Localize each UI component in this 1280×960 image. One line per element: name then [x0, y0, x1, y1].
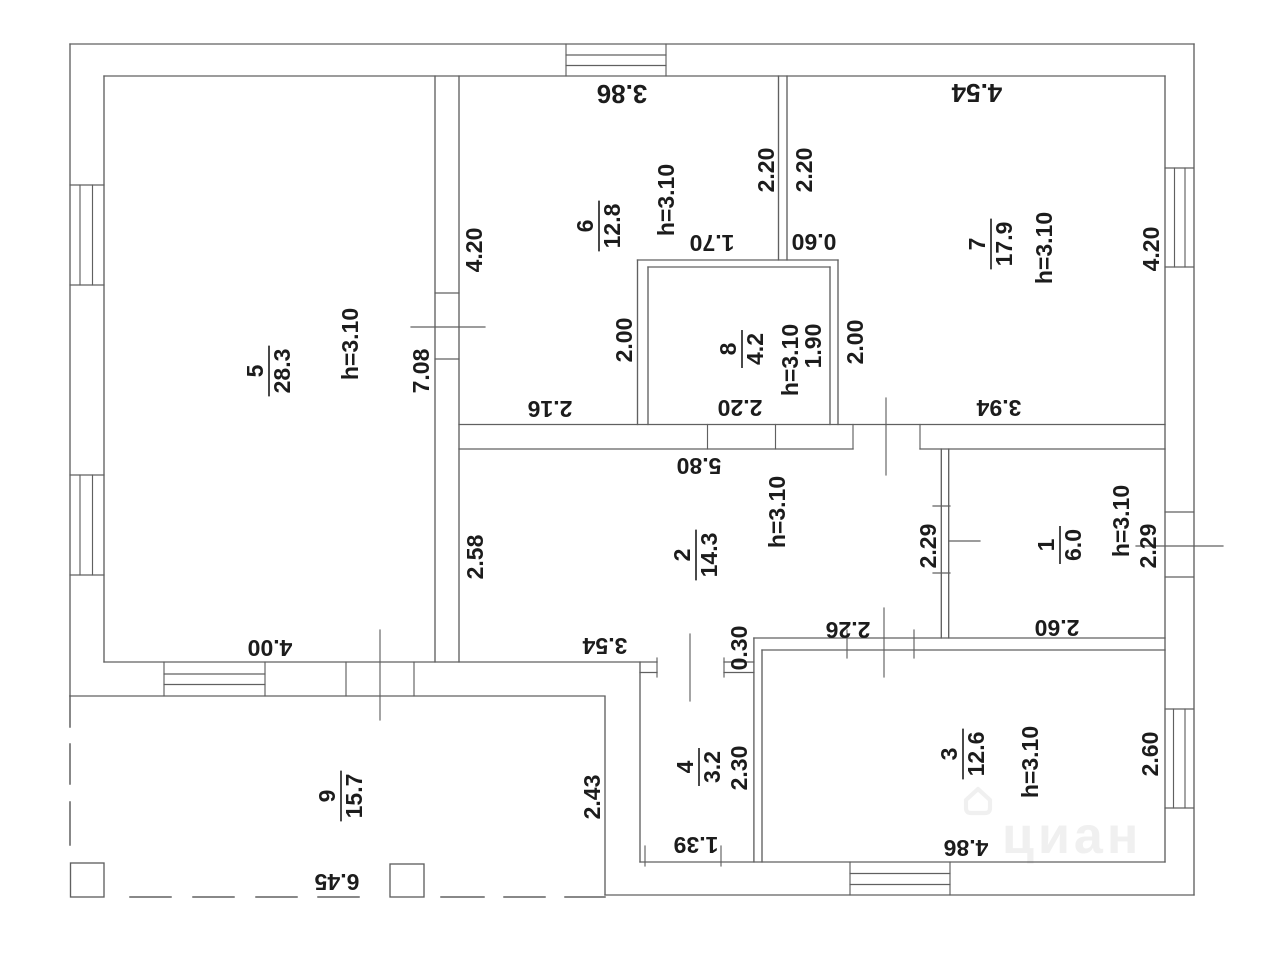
svg-text:h=3.10: h=3.10	[777, 324, 803, 396]
svg-text:4.20: 4.20	[461, 228, 487, 273]
svg-text:17.9: 17.9	[991, 222, 1017, 267]
svg-text:2.16: 2.16	[528, 396, 573, 422]
room 3 area 12.6	[936, 729, 989, 780]
room 2 area 14.3	[669, 530, 722, 581]
veranda right wall	[604, 697, 606, 895]
room 9 area 15.7	[314, 771, 367, 822]
svg-text:2.00: 2.00	[611, 318, 637, 363]
svg-text:15.7: 15.7	[341, 774, 367, 819]
room 6 area 12.8	[572, 201, 625, 252]
room 1 area 6.0	[1033, 526, 1086, 564]
svg-text:0.30: 0.30	[726, 626, 752, 671]
svg-text:h=3.10: h=3.10	[653, 164, 679, 236]
svg-text:1.90: 1.90	[800, 324, 826, 369]
svg-text:6.0: 6.0	[1060, 529, 1086, 561]
veranda pillars	[71, 863, 105, 897]
outer wall bottom-left	[70, 695, 605, 697]
svg-text:4.2: 4.2	[742, 333, 768, 365]
svg-text:28.3: 28.3	[269, 349, 295, 394]
svg-text:7: 7	[964, 238, 990, 251]
svg-text:2.29: 2.29	[915, 524, 941, 569]
watermark house icon	[966, 789, 990, 813]
svg-text:h=3.10: h=3.10	[1017, 726, 1043, 798]
svg-text:4.54: 4.54	[951, 78, 1002, 108]
svg-text:h=3.10: h=3.10	[1031, 212, 1057, 284]
svg-text:2.60: 2.60	[1137, 732, 1163, 777]
inner wall bottom-left	[104, 661, 657, 663]
svg-text:6.45: 6.45	[314, 869, 359, 895]
svg-text:2.30: 2.30	[726, 746, 752, 791]
svg-text:1: 1	[1033, 538, 1059, 551]
svg-text:h=3.10: h=3.10	[337, 308, 363, 380]
svg-text:2.29: 2.29	[1135, 524, 1161, 569]
inner wall left	[103, 76, 105, 662]
svg-text:5: 5	[242, 364, 268, 377]
svg-text:6: 6	[572, 220, 598, 233]
inner wall top	[104, 75, 1165, 77]
svg-text:9: 9	[314, 790, 340, 803]
outer wall right	[1193, 44, 1195, 895]
outer wall bottom extension	[605, 894, 1194, 896]
svg-text:3.86: 3.86	[597, 79, 648, 109]
svg-text:4.86: 4.86	[944, 835, 989, 861]
outer wall top	[70, 43, 1194, 45]
room 8 area 4.2	[715, 330, 768, 368]
svg-text:циан: циан	[1002, 807, 1142, 865]
svg-text:2.60: 2.60	[1035, 615, 1080, 641]
svg-text:0.60: 0.60	[792, 229, 837, 255]
svg-text:3.2: 3.2	[699, 751, 725, 783]
svg-text:12.8: 12.8	[599, 203, 625, 248]
svg-text:4: 4	[672, 760, 698, 773]
svg-text:2.20: 2.20	[791, 148, 817, 193]
inner wall bottom extension	[640, 861, 1165, 863]
svg-text:h=3.10: h=3.10	[1108, 485, 1134, 557]
svg-text:2.20: 2.20	[753, 148, 779, 193]
svg-text:2.26: 2.26	[826, 617, 871, 643]
svg-text:h=3.10: h=3.10	[764, 476, 790, 548]
room 5 area 28.3	[242, 346, 295, 397]
svg-text:1.39: 1.39	[674, 832, 719, 858]
svg-text:4.00: 4.00	[248, 635, 293, 661]
svg-text:14.3: 14.3	[696, 533, 722, 578]
svg-text:4.20: 4.20	[1138, 227, 1164, 272]
svg-text:2.00: 2.00	[842, 320, 868, 365]
room 7 area 17.9	[964, 219, 1017, 270]
svg-text:3: 3	[936, 748, 962, 761]
svg-text:7.08: 7.08	[408, 348, 434, 393]
svg-text:1.70: 1.70	[690, 230, 735, 256]
svg-text:2: 2	[669, 549, 695, 562]
room 4 area 3.2	[672, 748, 725, 786]
svg-text:2.43: 2.43	[579, 775, 605, 820]
svg-text:2.58: 2.58	[462, 534, 488, 579]
svg-text:8: 8	[715, 342, 741, 355]
svg-text:3.54: 3.54	[582, 633, 627, 659]
svg-text:3.94: 3.94	[976, 395, 1021, 421]
outer wall left	[69, 44, 71, 696]
svg-text:5.80: 5.80	[677, 453, 722, 479]
svg-text:2.20: 2.20	[718, 395, 763, 421]
inner wall right	[1164, 76, 1166, 862]
svg-text:12.6: 12.6	[963, 732, 989, 777]
